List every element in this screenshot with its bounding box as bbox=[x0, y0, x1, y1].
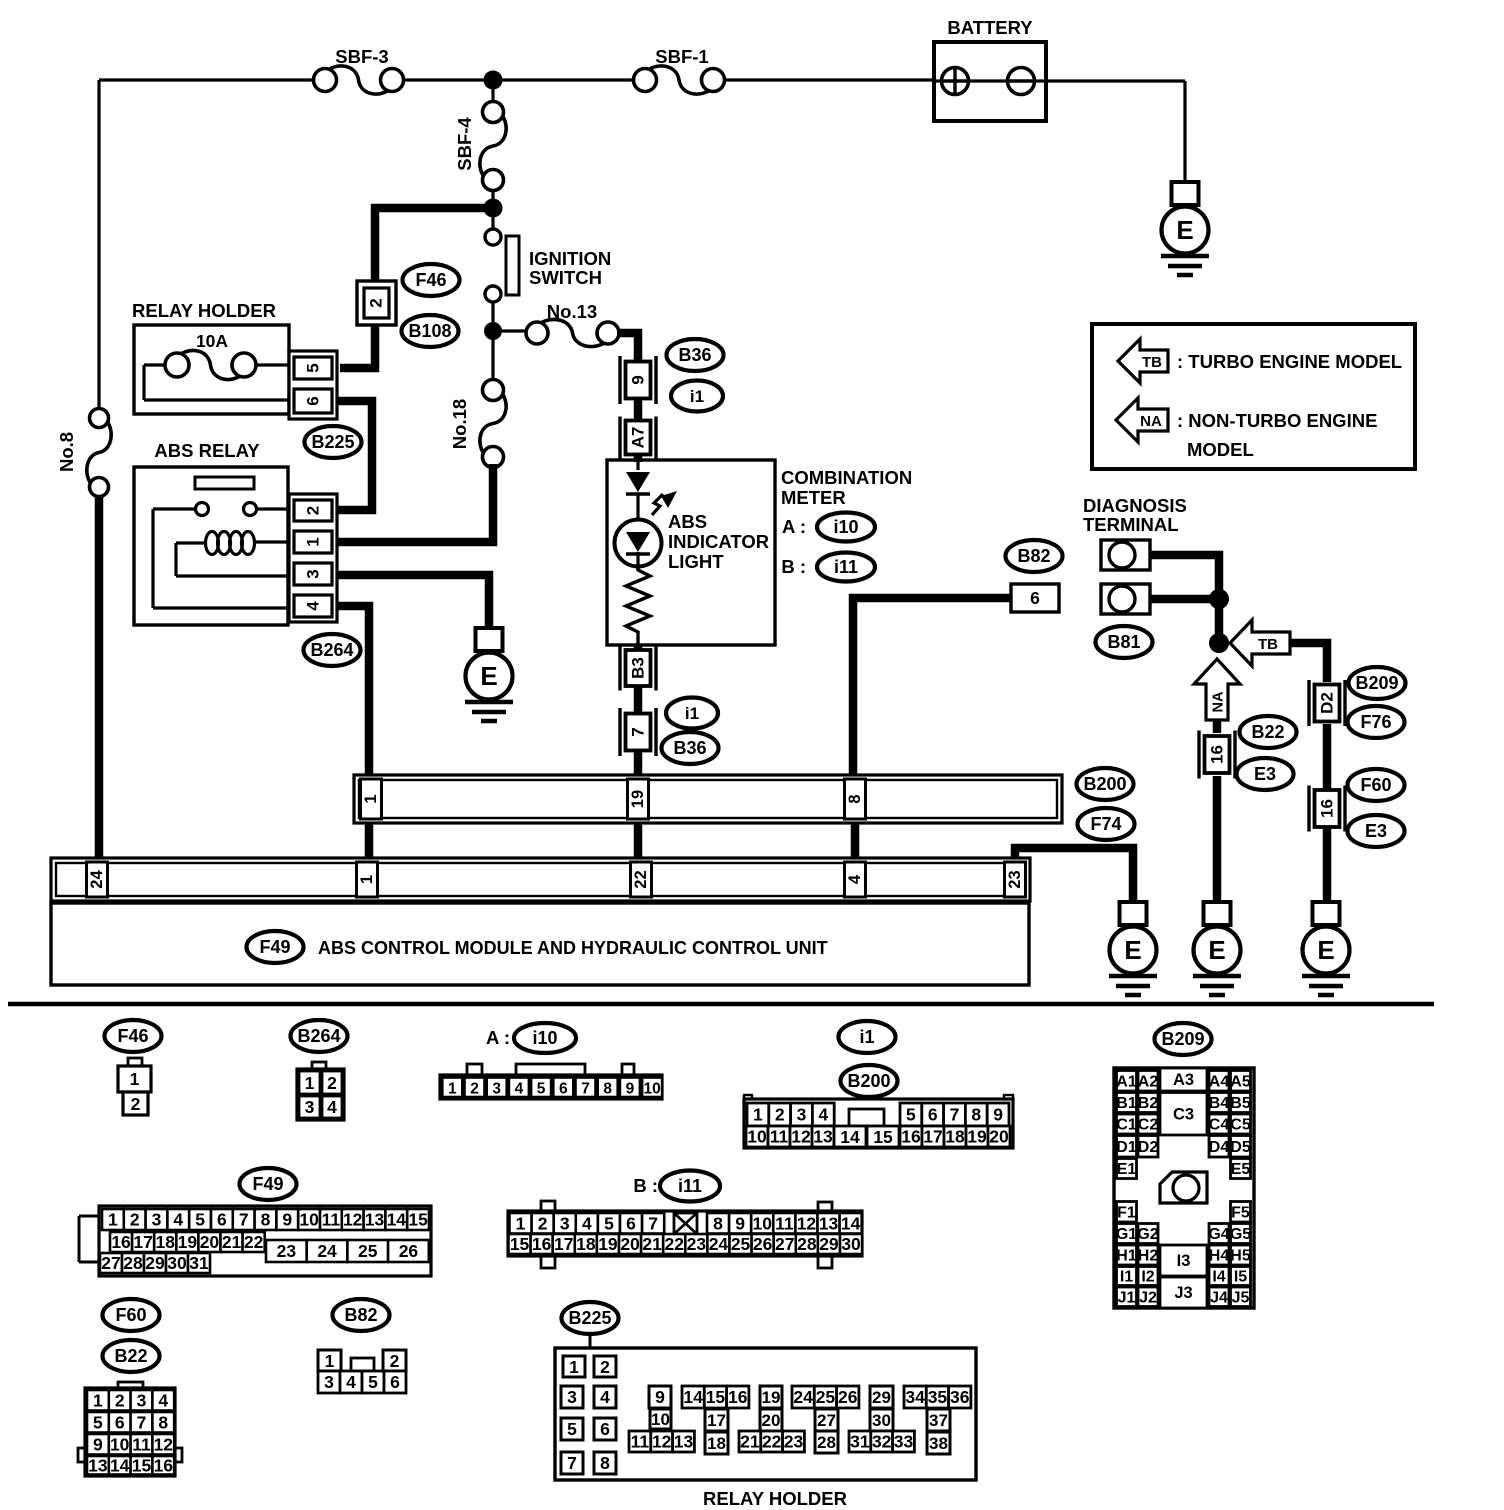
svg-text:I1: I1 bbox=[1120, 1269, 1133, 1286]
fuse SBF-3 bbox=[314, 46, 404, 94]
node junction diagnosis upper bbox=[1209, 589, 1229, 609]
svg-text:20: 20 bbox=[762, 1411, 781, 1430]
relay holder pins 3-4 bbox=[561, 1386, 616, 1408]
svg-text:i11: i11 bbox=[834, 557, 858, 577]
svg-text:H4: H4 bbox=[1209, 1248, 1230, 1265]
ground E (diagnosis NA) bbox=[1193, 902, 1241, 995]
connector i10 pinout bbox=[440, 1064, 662, 1099]
svg-text:27: 27 bbox=[775, 1234, 794, 1254]
svg-text:22: 22 bbox=[632, 870, 650, 888]
svg-text:1: 1 bbox=[108, 1210, 118, 1230]
label B264 (pinout) bbox=[291, 1020, 348, 1052]
svg-text:F5: F5 bbox=[1231, 1204, 1250, 1221]
label B264 bbox=[304, 634, 361, 666]
svg-text:4: 4 bbox=[515, 1080, 524, 1097]
label B209 (D2) bbox=[1349, 667, 1406, 699]
svg-text:16: 16 bbox=[111, 1232, 131, 1252]
svg-text:12: 12 bbox=[797, 1213, 817, 1233]
legend text turbo bbox=[1177, 351, 1402, 372]
connector B82 pin 6 bbox=[1011, 584, 1059, 612]
svg-text:11: 11 bbox=[770, 1127, 789, 1147]
fuse 10A inside relay holder bbox=[144, 331, 289, 400]
svg-text:28: 28 bbox=[797, 1234, 817, 1254]
svg-text:10: 10 bbox=[747, 1127, 767, 1147]
svg-text:i1: i1 bbox=[690, 387, 704, 406]
svg-text:5: 5 bbox=[368, 1372, 378, 1392]
svg-text:17: 17 bbox=[707, 1411, 726, 1430]
svg-text:3: 3 bbox=[137, 1390, 147, 1410]
ignition switch contact top bbox=[485, 229, 501, 245]
svg-text:B22: B22 bbox=[1251, 722, 1284, 742]
svg-text:2: 2 bbox=[130, 1210, 140, 1230]
svg-text:B200: B200 bbox=[847, 1071, 890, 1091]
ground E (TB branch) bbox=[1302, 902, 1350, 995]
ABS control module box bbox=[51, 903, 1029, 985]
svg-text:A :: A : bbox=[782, 516, 806, 537]
wire ABS-relay pin4 to F49 pin1 bbox=[338, 606, 369, 777]
svg-text:E3: E3 bbox=[1254, 764, 1276, 784]
svg-text:25: 25 bbox=[731, 1234, 751, 1254]
connector pin A7 bbox=[620, 417, 656, 459]
label B22 (diag) bbox=[1240, 716, 1297, 748]
legend text non-turbo bbox=[1177, 410, 1377, 460]
label i1 (lower) bbox=[666, 698, 718, 729]
svg-text:7: 7 bbox=[137, 1412, 147, 1432]
wire TB to D2 bbox=[1290, 643, 1327, 682]
relay coil bbox=[176, 532, 294, 577]
label B225 bbox=[305, 426, 362, 458]
svg-text:F74: F74 bbox=[1090, 814, 1121, 834]
svg-text:10: 10 bbox=[299, 1210, 319, 1230]
svg-text:1: 1 bbox=[304, 537, 323, 546]
svg-text:22: 22 bbox=[244, 1232, 264, 1252]
svg-text:5: 5 bbox=[567, 1419, 577, 1439]
LED arrows bbox=[652, 491, 677, 515]
svg-text:6: 6 bbox=[600, 1419, 610, 1439]
svg-text:4: 4 bbox=[582, 1213, 592, 1233]
label E3 (right) bbox=[1348, 815, 1405, 847]
svg-text:B4: B4 bbox=[1209, 1095, 1230, 1112]
node junction diagnosis lower bbox=[1209, 633, 1229, 653]
svg-text:2: 2 bbox=[327, 1073, 337, 1093]
svg-text:35: 35 bbox=[928, 1387, 948, 1407]
svg-text:B3: B3 bbox=[629, 657, 648, 679]
svg-text:TB: TB bbox=[1258, 636, 1278, 653]
wire F74 pin8 to F49 pin4 bbox=[851, 823, 860, 862]
legend arrow TB bbox=[1118, 339, 1168, 383]
svg-text:10A: 10A bbox=[196, 331, 228, 351]
svg-text:RELAY HOLDER: RELAY HOLDER bbox=[132, 300, 276, 321]
svg-text:2: 2 bbox=[600, 1357, 610, 1377]
diode (meter) bbox=[626, 462, 650, 520]
wire connector9-A7-meter bbox=[634, 356, 643, 462]
svg-text:4: 4 bbox=[346, 1372, 356, 1392]
svg-text:F76: F76 bbox=[1360, 712, 1391, 732]
svg-text:8: 8 bbox=[158, 1412, 168, 1432]
svg-text:23: 23 bbox=[277, 1241, 297, 1261]
svg-text:25: 25 bbox=[358, 1241, 378, 1261]
svg-text:F49: F49 bbox=[252, 1174, 283, 1194]
svg-text:B264: B264 bbox=[310, 640, 353, 660]
svg-text:2: 2 bbox=[367, 298, 386, 307]
svg-text:21: 21 bbox=[740, 1432, 760, 1452]
svg-text:21: 21 bbox=[642, 1234, 662, 1254]
arrow NA (circuit) bbox=[1194, 659, 1240, 720]
wire No.8 to F49 pin 24 bbox=[95, 495, 104, 860]
wire F74 pin1 link bbox=[365, 823, 374, 862]
svg-text:A1: A1 bbox=[1116, 1073, 1137, 1090]
svg-text:2: 2 bbox=[390, 1351, 400, 1371]
svg-text:4: 4 bbox=[846, 874, 864, 884]
wire left drop from top bus bbox=[97, 80, 100, 410]
svg-text:6: 6 bbox=[559, 1080, 568, 1097]
svg-text:B :: B : bbox=[633, 1175, 658, 1196]
svg-text:BATTERY: BATTERY bbox=[947, 17, 1033, 38]
relay holder pinout box bbox=[555, 1348, 976, 1480]
svg-text:28: 28 bbox=[817, 1433, 836, 1452]
svg-text:15: 15 bbox=[408, 1210, 428, 1230]
svg-text:5: 5 bbox=[304, 363, 323, 372]
svg-text:IGNITION: IGNITION bbox=[529, 248, 611, 269]
label F49 (pinout) bbox=[240, 1168, 297, 1200]
svg-text:16: 16 bbox=[1208, 745, 1227, 764]
svg-text:5: 5 bbox=[93, 1412, 103, 1432]
svg-text:10: 10 bbox=[651, 1410, 670, 1429]
relay contacts bbox=[153, 503, 294, 609]
relay armature bbox=[195, 477, 254, 489]
svg-text:27: 27 bbox=[817, 1411, 836, 1430]
svg-text:13: 13 bbox=[365, 1210, 385, 1230]
connector F60/E3 pin 16 bbox=[1309, 786, 1345, 832]
relay holder pins 5-6 bbox=[561, 1418, 616, 1440]
svg-text:6: 6 bbox=[217, 1210, 227, 1230]
svg-text:1: 1 bbox=[753, 1105, 763, 1125]
wire SBF-4 junction to relay holder pin 5 (via F46/B108) bbox=[340, 208, 493, 368]
svg-text:3: 3 bbox=[304, 569, 323, 578]
svg-text:14: 14 bbox=[840, 1127, 860, 1147]
svg-text:8: 8 bbox=[261, 1210, 271, 1230]
svg-text:29: 29 bbox=[872, 1388, 891, 1407]
svg-text:38: 38 bbox=[929, 1434, 948, 1453]
fuse No.13 bbox=[501, 301, 619, 347]
svg-text:6: 6 bbox=[1030, 588, 1040, 608]
svg-text:E: E bbox=[1317, 935, 1334, 965]
svg-text:I5: I5 bbox=[1234, 1269, 1247, 1286]
svg-text:E: E bbox=[1176, 215, 1193, 245]
svg-text:i11: i11 bbox=[678, 1176, 702, 1196]
fuse SBF-1 bbox=[634, 46, 725, 94]
svg-text:37: 37 bbox=[929, 1411, 948, 1430]
svg-text:i1: i1 bbox=[685, 704, 699, 723]
svg-text:C1: C1 bbox=[1116, 1117, 1137, 1134]
label DIAGNOSIS TERMINAL bbox=[1083, 495, 1187, 535]
svg-text:7: 7 bbox=[239, 1210, 249, 1230]
relay holder group 9-13 bbox=[629, 1386, 694, 1452]
node junction top bbox=[484, 71, 503, 90]
svg-text:4: 4 bbox=[818, 1105, 828, 1125]
svg-text:E: E bbox=[1208, 935, 1225, 965]
svg-text:ABS: ABS bbox=[668, 511, 707, 532]
label A : i10 bbox=[782, 513, 875, 542]
svg-text:10: 10 bbox=[110, 1434, 130, 1454]
label B200 bbox=[1077, 768, 1134, 800]
connector i1/B200 pinout bbox=[744, 1095, 1013, 1148]
wire B82 pin6 to F49 pin8 bbox=[853, 598, 1011, 777]
separator line bbox=[8, 1002, 1434, 1007]
svg-text:SBF-4: SBF-4 bbox=[454, 117, 475, 171]
svg-text:7: 7 bbox=[629, 727, 648, 736]
svg-text:13: 13 bbox=[819, 1213, 839, 1233]
ABS indicator light LED bbox=[615, 520, 662, 567]
svg-text:13: 13 bbox=[88, 1455, 108, 1475]
svg-text:19: 19 bbox=[598, 1234, 618, 1254]
connector block B264 pins 2/1/3/4 bbox=[289, 494, 337, 622]
resistor (meter) bbox=[626, 566, 650, 645]
svg-text:G5: G5 bbox=[1230, 1226, 1251, 1243]
svg-text:E3: E3 bbox=[1365, 821, 1387, 841]
svg-text:14: 14 bbox=[110, 1455, 130, 1475]
label B22 (pinout) bbox=[103, 1340, 160, 1372]
wire F49 pin23 to ground bbox=[1015, 848, 1133, 904]
svg-text:C3: C3 bbox=[1173, 1105, 1194, 1123]
svg-text:COMBINATION: COMBINATION bbox=[781, 467, 912, 488]
svg-text:6: 6 bbox=[115, 1412, 125, 1432]
relay holder group 34-38 bbox=[904, 1386, 971, 1454]
svg-text:26: 26 bbox=[753, 1234, 773, 1254]
connector i11 pinout bbox=[508, 1201, 862, 1268]
svg-text:30: 30 bbox=[167, 1253, 187, 1273]
svg-text:1: 1 bbox=[569, 1357, 579, 1377]
svg-text:LIGHT: LIGHT bbox=[668, 551, 724, 572]
connector block B225 pins 5/6 bbox=[289, 351, 337, 419]
svg-text:12: 12 bbox=[154, 1434, 174, 1454]
wire bbox=[491, 302, 494, 331]
svg-text:22: 22 bbox=[762, 1432, 782, 1452]
svg-text:A7: A7 bbox=[629, 427, 648, 449]
svg-text:9: 9 bbox=[282, 1210, 292, 1230]
svg-text:13: 13 bbox=[813, 1127, 833, 1147]
svg-text:25: 25 bbox=[816, 1387, 836, 1407]
ABS relay box bbox=[134, 440, 288, 625]
svg-text:12: 12 bbox=[343, 1210, 363, 1230]
svg-text:34: 34 bbox=[905, 1387, 925, 1407]
svg-text:J5: J5 bbox=[1232, 1289, 1250, 1306]
svg-text:E: E bbox=[480, 661, 497, 691]
svg-text:17: 17 bbox=[133, 1232, 152, 1252]
label i1 bbox=[671, 381, 723, 412]
svg-text:B1: B1 bbox=[1116, 1095, 1137, 1112]
svg-text:19: 19 bbox=[762, 1388, 781, 1407]
label B82 bbox=[1006, 540, 1063, 572]
svg-text:8: 8 bbox=[846, 794, 864, 803]
svg-text:i10: i10 bbox=[532, 1028, 557, 1048]
svg-text:B225: B225 bbox=[568, 1308, 611, 1328]
svg-text:F46: F46 bbox=[117, 1026, 148, 1046]
svg-text:15: 15 bbox=[510, 1234, 530, 1254]
label B36 bbox=[667, 339, 724, 371]
wire meter to F49 pin19 bbox=[634, 645, 643, 777]
svg-text:7: 7 bbox=[648, 1213, 658, 1233]
relay holder box bbox=[132, 300, 289, 414]
svg-text:B82: B82 bbox=[344, 1305, 377, 1325]
relay holder group 24-28 bbox=[792, 1386, 859, 1453]
svg-text:31: 31 bbox=[850, 1432, 870, 1452]
svg-text:17: 17 bbox=[554, 1234, 573, 1254]
svg-text:No.8: No.8 bbox=[56, 432, 77, 472]
connector F46 pinout bbox=[118, 1058, 151, 1115]
ground E (F49 pin 23) bbox=[1109, 902, 1157, 995]
svg-text:F49: F49 bbox=[259, 937, 290, 957]
svg-text:1: 1 bbox=[93, 1390, 103, 1410]
svg-text:SBF-3: SBF-3 bbox=[335, 46, 388, 67]
svg-text:9: 9 bbox=[735, 1213, 745, 1233]
connector B209 pinout bbox=[1114, 1068, 1254, 1308]
svg-text:B2: B2 bbox=[1138, 1095, 1159, 1112]
wire diagnosis terminal 2 bbox=[1150, 599, 1219, 645]
svg-text:D1: D1 bbox=[1116, 1139, 1137, 1156]
svg-text:11: 11 bbox=[775, 1213, 794, 1233]
svg-text:4: 4 bbox=[173, 1210, 183, 1230]
svg-text:C5: C5 bbox=[1230, 1117, 1251, 1134]
svg-text:D2: D2 bbox=[1318, 692, 1337, 714]
svg-text:1: 1 bbox=[516, 1213, 526, 1233]
svg-text:A4: A4 bbox=[1209, 1073, 1230, 1090]
svg-text:SBF-1: SBF-1 bbox=[655, 46, 708, 67]
svg-text:A5: A5 bbox=[1230, 1073, 1251, 1090]
svg-text:E1: E1 bbox=[1117, 1161, 1137, 1178]
battery B1 bbox=[934, 17, 1046, 121]
svg-text:20: 20 bbox=[200, 1232, 220, 1252]
svg-text:10: 10 bbox=[753, 1213, 773, 1233]
svg-text:B225: B225 bbox=[311, 432, 354, 452]
label B209 (pinout) bbox=[1155, 1023, 1212, 1055]
label B81 bbox=[1096, 626, 1153, 658]
svg-text:8: 8 bbox=[713, 1213, 723, 1233]
svg-text:16: 16 bbox=[728, 1387, 748, 1407]
svg-text:24: 24 bbox=[88, 870, 106, 889]
label i1 (pinout) bbox=[839, 1021, 896, 1053]
svg-text:E5: E5 bbox=[1231, 1161, 1251, 1178]
connector B264 pinout bbox=[297, 1062, 344, 1120]
svg-text:F60: F60 bbox=[115, 1305, 146, 1325]
svg-text:4: 4 bbox=[158, 1390, 168, 1410]
svg-text:RELAY HOLDER: RELAY HOLDER bbox=[703, 1488, 847, 1509]
svg-text:3: 3 bbox=[492, 1080, 501, 1097]
svg-text:2: 2 bbox=[538, 1213, 548, 1233]
svg-text:J3: J3 bbox=[1174, 1284, 1192, 1302]
svg-text:16: 16 bbox=[1318, 799, 1337, 818]
svg-text:15: 15 bbox=[873, 1127, 893, 1147]
svg-text:6: 6 bbox=[928, 1105, 938, 1125]
svg-text:3: 3 bbox=[560, 1213, 570, 1233]
svg-text:15: 15 bbox=[706, 1387, 726, 1407]
svg-text:A3: A3 bbox=[1173, 1071, 1194, 1089]
svg-text:J4: J4 bbox=[1210, 1289, 1228, 1306]
svg-text:1: 1 bbox=[362, 794, 380, 803]
svg-text:D2: D2 bbox=[1138, 1139, 1159, 1156]
svg-text:6: 6 bbox=[304, 396, 323, 405]
svg-text:H5: H5 bbox=[1230, 1248, 1251, 1265]
svg-text:2: 2 bbox=[115, 1390, 125, 1410]
svg-text:TB: TB bbox=[1142, 354, 1162, 371]
svg-text:28: 28 bbox=[123, 1253, 143, 1273]
meter text bbox=[668, 511, 769, 572]
svg-text:MODEL: MODEL bbox=[1187, 439, 1254, 460]
svg-text:3: 3 bbox=[324, 1372, 334, 1392]
svg-text:14: 14 bbox=[387, 1210, 407, 1230]
svg-text:D5: D5 bbox=[1230, 1139, 1251, 1156]
svg-text:D4: D4 bbox=[1209, 1139, 1230, 1156]
svg-text:31: 31 bbox=[189, 1253, 209, 1273]
svg-text:1: 1 bbox=[130, 1069, 140, 1089]
svg-text:18: 18 bbox=[707, 1434, 726, 1453]
svg-text:10: 10 bbox=[643, 1080, 660, 1097]
relay holder pins 1-2 bbox=[563, 1356, 616, 1377]
svg-text:23: 23 bbox=[784, 1432, 804, 1452]
svg-text:2: 2 bbox=[304, 506, 323, 515]
svg-text:DIAGNOSIS: DIAGNOSIS bbox=[1083, 495, 1187, 516]
svg-text:26: 26 bbox=[399, 1241, 419, 1261]
svg-text:C2: C2 bbox=[1138, 1117, 1159, 1134]
svg-text:26: 26 bbox=[838, 1387, 858, 1407]
svg-text:23: 23 bbox=[687, 1234, 707, 1254]
svg-text:2: 2 bbox=[775, 1105, 785, 1125]
svg-text:3: 3 bbox=[305, 1097, 315, 1117]
svg-text:8: 8 bbox=[600, 1453, 610, 1473]
svg-text:33: 33 bbox=[894, 1432, 914, 1452]
svg-text:NA: NA bbox=[1211, 691, 1227, 712]
svg-text:9: 9 bbox=[993, 1105, 1003, 1125]
svg-text:H2: H2 bbox=[1138, 1248, 1159, 1265]
label F46 (pinout) bbox=[105, 1020, 162, 1052]
svg-text:12: 12 bbox=[791, 1127, 811, 1147]
wire ABS-relay pin3 to ground bbox=[338, 575, 489, 630]
svg-text:9: 9 bbox=[629, 375, 648, 384]
connector B36/i1 pin 7 bbox=[620, 708, 656, 756]
svg-text:12: 12 bbox=[652, 1432, 672, 1452]
ground E (battery) bbox=[1161, 182, 1209, 275]
connector F49 pinout bbox=[79, 1206, 431, 1276]
connector B22/E3 pin 16 bbox=[1199, 731, 1235, 779]
svg-text:G2: G2 bbox=[1137, 1226, 1158, 1243]
svg-text:: NON-TURBO ENGINE: : NON-TURBO ENGINE bbox=[1177, 410, 1377, 431]
svg-text:E: E bbox=[1124, 935, 1141, 965]
svg-text:B209: B209 bbox=[1161, 1029, 1204, 1049]
connector B82 pinout bbox=[318, 1350, 406, 1393]
fuse SBF-4 bbox=[454, 88, 506, 201]
svg-text:24: 24 bbox=[793, 1387, 813, 1407]
svg-text:No.13: No.13 bbox=[547, 301, 597, 322]
diagnosis terminal contact 1 bbox=[1101, 540, 1150, 570]
svg-text:H1: H1 bbox=[1116, 1248, 1137, 1265]
wire ABS-relay pin1 to No.18 bbox=[338, 464, 493, 542]
svg-text:5: 5 bbox=[195, 1210, 205, 1230]
svg-text:J2: J2 bbox=[1139, 1289, 1157, 1306]
connector B209/F76 pin D2 bbox=[1309, 680, 1345, 726]
label B225 (pinout) bbox=[562, 1302, 619, 1352]
svg-text:1: 1 bbox=[305, 1073, 315, 1093]
wire 16 to ground (left) bbox=[1213, 776, 1222, 904]
wire bbox=[725, 78, 934, 81]
wire D2 to 16 to ground (right) bbox=[1323, 724, 1332, 904]
combination meter box bbox=[607, 460, 775, 645]
connector bar F49 (module) bbox=[51, 858, 1030, 901]
wire battery positive feed (top bus) bbox=[99, 78, 634, 81]
svg-text:11: 11 bbox=[631, 1432, 650, 1452]
svg-text:METER: METER bbox=[781, 487, 846, 508]
svg-text:4: 4 bbox=[327, 1097, 337, 1117]
svg-text:ABS CONTROL MODULE AND HYDRAUL: ABS CONTROL MODULE AND HYDRAULIC CONTROL… bbox=[318, 938, 828, 958]
